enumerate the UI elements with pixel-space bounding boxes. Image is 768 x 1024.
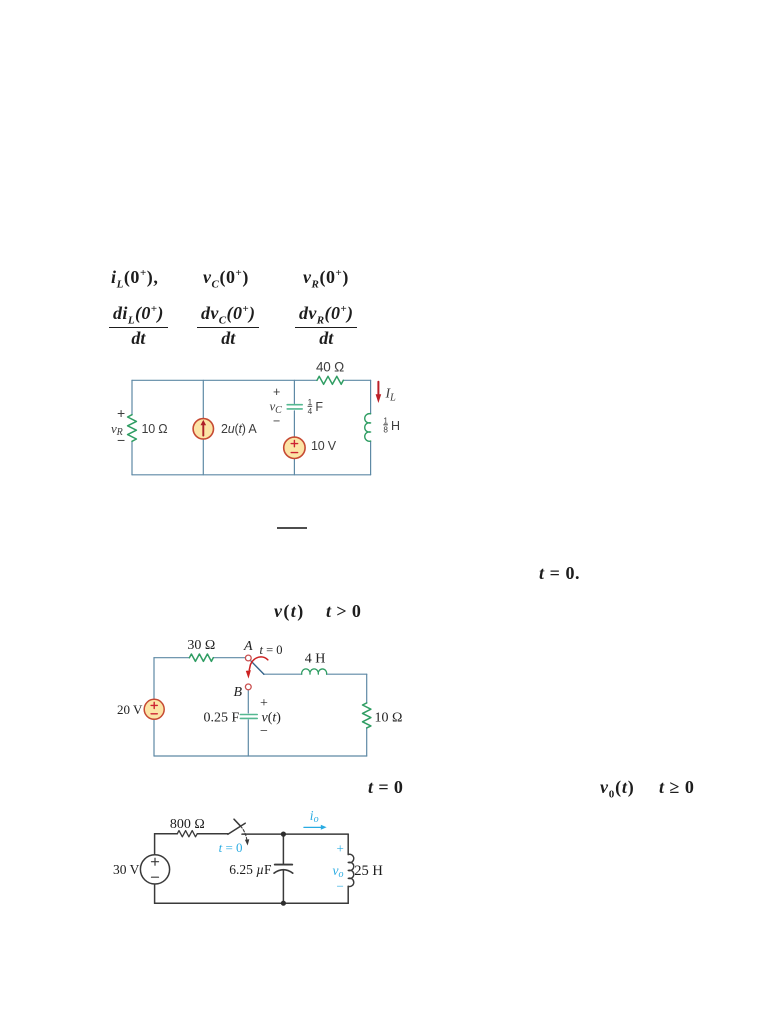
wire capacitor-to-source segment (293, 411, 295, 437)
wire left edge lower (153, 719, 155, 756)
wire right edge upper (366, 674, 368, 703)
wire resistor-to-A segment (213, 657, 245, 659)
svg-text:20 V: 20 V (117, 702, 143, 717)
wire right edge upper (370, 380, 372, 414)
wire left edge lower (131, 441, 133, 475)
svg-text:1: 1 (308, 398, 313, 407)
wire left edge upper (153, 658, 155, 700)
inductor 1/8H coil (365, 414, 371, 442)
svg-text:10 Ω: 10 Ω (375, 711, 403, 726)
wire B-to-capacitor segment (247, 690, 249, 713)
svg-text:+: + (337, 841, 344, 856)
resistor 40ohm zigzag (317, 376, 343, 384)
voltage source 10V plus (291, 440, 297, 446)
voltage source 30V minus (152, 876, 159, 878)
capacitor C plates (287, 405, 302, 409)
switch node B circle (245, 684, 251, 690)
wire current-source branch upper (202, 380, 204, 418)
node dvR/dt fraction (295, 303, 357, 349)
node v(t) t>0 text (274, 601, 305, 622)
svg-text:B: B (234, 685, 243, 700)
capacitor 6.25uF bottom curved plate (274, 870, 293, 874)
wire top-right segment (242, 833, 348, 835)
svg-text:F: F (315, 400, 323, 414)
svg-text:2u(t) A: 2u(t) A (221, 422, 257, 436)
node v0(t) t>=0 text (600, 777, 635, 801)
resistor 10ohm zigzag (363, 703, 371, 728)
node iL(0+) (111, 267, 158, 291)
node dvC/dt fraction (197, 303, 259, 349)
wire source-to-bottom segment (293, 459, 295, 475)
svg-text:t = 0: t = 0 (219, 840, 243, 855)
label 1/4 F fraction (308, 398, 313, 416)
voltage source 10V minus (291, 452, 297, 454)
current source arrow (201, 420, 207, 436)
voltage source 10V circle (284, 437, 305, 458)
voltage source 30V circle (140, 855, 169, 884)
svg-text:−: − (337, 879, 344, 894)
svg-text:25 H: 25 H (354, 863, 383, 879)
capacitor 6.25uF top plate (275, 864, 292, 866)
resistor 10ohm zigzag (128, 415, 137, 442)
svg-text:4: 4 (308, 407, 313, 416)
short dash line (277, 527, 307, 529)
wire left edge lower (154, 884, 156, 903)
svg-text:40 Ω: 40 Ω (316, 360, 344, 375)
voltage source 20V circle (144, 699, 164, 719)
wire top-right segment (343, 379, 370, 381)
svg-text:t = 0: t = 0 (260, 643, 283, 657)
wire capacitor stem upper (282, 834, 284, 864)
switch node A circle (245, 655, 251, 661)
voltage source 20V plus (151, 702, 157, 708)
wire top-left segment (155, 833, 178, 835)
svg-text:−: − (117, 432, 125, 448)
svg-text:10 Ω: 10 Ω (142, 422, 168, 436)
switch arm (251, 661, 264, 674)
svg-text:+: + (117, 405, 125, 421)
arrow IL red (376, 382, 382, 403)
wire right edge lower (347, 886, 349, 903)
node diL/dt fraction (109, 303, 168, 349)
voltage source 20V minus (151, 713, 157, 715)
wire right edge lower (366, 728, 368, 756)
svg-text:30 V: 30 V (113, 862, 140, 877)
svg-text:vo: vo (333, 863, 344, 880)
node t=0. text (539, 563, 580, 584)
svg-text:io: io (310, 808, 319, 825)
svg-text:A: A (243, 639, 253, 654)
wire resistor-to-switch segment (197, 833, 228, 835)
svg-text:H: H (391, 419, 400, 433)
inductor 25H coil (348, 854, 354, 886)
wire bottom (132, 474, 371, 476)
wire bottom (154, 755, 367, 757)
svg-text:4 H: 4 H (305, 651, 326, 666)
svg-text:30 Ω: 30 Ω (187, 638, 215, 653)
node t=0 text (circuit 3) (368, 777, 403, 798)
wire capacitor stem lower (282, 870, 284, 903)
wire left edge upper (154, 834, 156, 855)
inductor 4H coil (302, 669, 327, 674)
wire capacitor-to-bottom segment (247, 720, 249, 756)
label 1/8 fraction (383, 416, 388, 434)
voltage source 30V plus (152, 858, 159, 865)
capacitor 0.25F plates (240, 715, 257, 719)
wire bottom (155, 902, 349, 904)
switch tick (234, 819, 241, 826)
node vR(0+) (303, 267, 349, 291)
switch arm (228, 823, 245, 834)
wire right edge upper (347, 834, 349, 854)
svg-text:IL: IL (385, 387, 396, 404)
svg-text:8: 8 (383, 426, 388, 435)
resistor 800ohm zigzag (177, 831, 197, 837)
wire top-left segment (132, 379, 317, 381)
svg-text:0.25 F: 0.25 F (204, 710, 240, 725)
resistor 30ohm zigzag (189, 654, 213, 661)
current source 2u(t)A circle (193, 419, 213, 439)
wire capacitor branch upper (293, 380, 295, 403)
svg-text:800 Ω: 800 Ω (170, 817, 205, 832)
svg-text:6.25 µF: 6.25 µF (229, 862, 272, 877)
wire arm-to-inductor segment (264, 673, 302, 675)
wire left edge upper (131, 380, 133, 414)
svg-text:−: − (273, 414, 280, 428)
svg-text:10 V: 10 V (311, 439, 337, 453)
switch dashed motion arrow (241, 826, 247, 840)
switch red motion arrow (246, 657, 268, 679)
junction dot bottom (281, 901, 286, 906)
wire top-left segment (154, 657, 189, 659)
wire inductor-to-right segment (327, 673, 367, 675)
junction dot top (281, 832, 286, 837)
wire current-source branch lower (202, 439, 204, 475)
svg-text:+: + (273, 385, 280, 399)
wire right edge lower (370, 441, 372, 475)
svg-text:−: − (260, 724, 268, 739)
arrow io cyan (304, 825, 327, 830)
node vC(0+) (203, 267, 249, 291)
svg-text:1: 1 (383, 416, 388, 425)
svg-text:+: + (260, 696, 268, 711)
